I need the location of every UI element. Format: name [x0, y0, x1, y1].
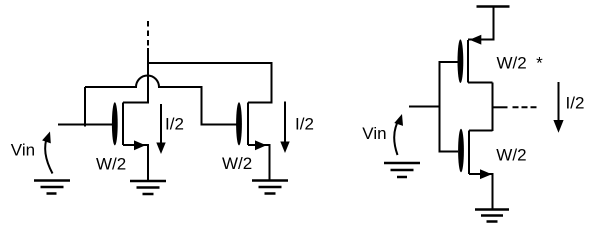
- transistor M4 gate plate: [458, 129, 464, 173]
- svg-text:W/2: W/2: [96, 154, 126, 173]
- svg-text:Vin: Vin: [362, 124, 386, 143]
- Vin source curved arrow (left circuit): [42, 132, 52, 174]
- current arrow I/2 beside M1: [156, 104, 165, 154]
- svg-text:W/2: W/2: [496, 145, 526, 164]
- wire: M1 source down to ground: [147, 145, 149, 180]
- wire: gate link from M1 gate, hump crossover over drain wire, to M2 gate: [85, 76, 237, 125]
- ground under Vin source (left circuit): [34, 181, 70, 194]
- transistor M3 gate plate: [458, 39, 464, 83]
- wire: dashed output continuation: [513, 106, 537, 108]
- ground under M1: [130, 181, 166, 194]
- current arrow I/2 (right circuit): [553, 82, 563, 133]
- svg-text:Vin: Vin: [11, 141, 35, 160]
- transistor M4 gate lead: [440, 151, 459, 153]
- current arrow I/2 beside M2: [280, 102, 289, 154]
- transistor M1 channel bar: [122, 103, 124, 146]
- wire: M4 source down to ground: [492, 174, 494, 209]
- transistor M3 gate lead: [440, 61, 459, 63]
- wire: Vin input wire to M1 gate: [58, 124, 113, 126]
- transistor M4 channel bar: [468, 131, 470, 175]
- wire: vertical tap from gate-link wire down to M1 gate wire: [84, 87, 86, 127]
- wire: output stub at common node: [493, 106, 508, 108]
- supply rail T-bar (right circuit): [477, 7, 510, 41]
- transistor M3 channel bar: [467, 40, 469, 83]
- transistor M2 channel bar: [247, 103, 249, 146]
- svg-text:I/2: I/2: [566, 94, 585, 113]
- wire: common node between M3 and M4: [492, 83, 494, 132]
- transistor M2 source arrowhead: [255, 140, 267, 150]
- wire: solid vertical from dashed stub down to M1 drain: [147, 48, 149, 104]
- transistor M4 source lead: [469, 173, 494, 175]
- ground under M2: [252, 181, 288, 194]
- transistor M2 gate plate: [236, 102, 242, 145]
- transistor M3 source lead from supply: [468, 39, 494, 41]
- svg-text:W/2: W/2: [222, 154, 252, 173]
- transistor M1 source arrowhead: [134, 140, 146, 150]
- transistor M1 drain lead: [123, 102, 149, 104]
- transistor M3 source arrowhead: [470, 35, 482, 45]
- wire: dashed drain stub going up from node D (left circuit): [147, 21, 149, 49]
- wire: shared gate vertical joining M3 and M4 gates: [439, 61, 441, 153]
- ground under Vin source (right circuit): [384, 163, 420, 177]
- transistor M2 source lead: [248, 144, 271, 146]
- wire: Vin input wire (right circuit): [409, 106, 441, 108]
- transistor M1 gate plate: [112, 102, 118, 145]
- transistor M1 source lead: [123, 144, 149, 146]
- Vin source curved arrow (right circuit): [394, 114, 403, 155]
- svg-text:I/2: I/2: [165, 115, 184, 134]
- svg-text:W/2 *: W/2 *: [497, 53, 544, 72]
- svg-text:I/2: I/2: [295, 115, 314, 134]
- ground under M4: [475, 210, 509, 222]
- transistor M4 drain lead: [469, 130, 493, 132]
- transistor M3 drain lead: [468, 82, 493, 84]
- wire: top rail joining M1 and M2 drains, down to M2 drain lead: [147, 63, 272, 103]
- wire: M2 source down to ground: [269, 145, 271, 180]
- transistor M4 source arrowhead: [480, 169, 492, 179]
